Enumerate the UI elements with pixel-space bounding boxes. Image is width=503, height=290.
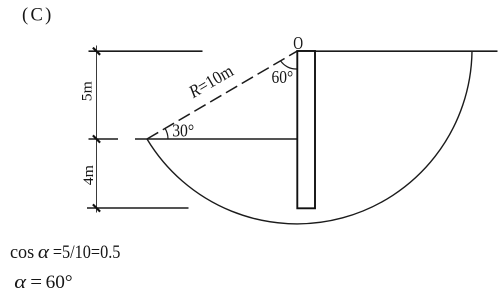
svg-text:R=10m: R=10m: [184, 60, 236, 102]
bottom dimension line: [87, 207, 189, 209]
svg-text:O: O: [293, 33, 303, 53]
svg-text:α: α: [38, 242, 50, 263]
svg-text:5m: 5m: [79, 81, 95, 101]
vertical dimension line: [96, 46, 98, 213]
dimension tick bottom: [93, 204, 100, 211]
svg-text:(C): (C): [22, 5, 54, 25]
svg-text:=5/10=0.5: =5/10=0.5: [53, 242, 121, 263]
svg-text:cos: cos: [10, 242, 34, 263]
ground line right segment: [296, 50, 497, 52]
svg-text:30°: 30°: [172, 121, 194, 141]
dimension tick middle: [93, 135, 100, 142]
ground line left segment: [89, 50, 203, 52]
svg-text:4m: 4m: [81, 165, 97, 186]
svg-text:α: α: [14, 272, 27, 290]
retaining wall: [297, 51, 315, 208]
excavation level line: [135, 138, 297, 140]
svg-text:=: =: [30, 272, 42, 290]
excavation level tick segment: [89, 138, 119, 140]
60 degree angle arc: [280, 61, 296, 69]
30 degree angle arc: [165, 128, 168, 139]
svg-text:60°: 60°: [46, 272, 73, 290]
slip circle arc: [147, 51, 472, 224]
dashed radius line: [147, 51, 297, 139]
svg-text:60°: 60°: [272, 67, 294, 87]
dimension tick top: [93, 48, 100, 55]
